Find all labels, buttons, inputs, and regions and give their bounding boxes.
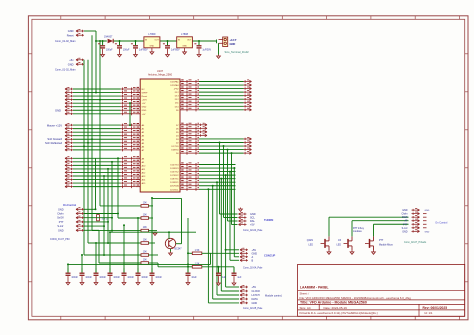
svg-text:D20/SDA: D20/SDA	[170, 185, 179, 188]
svg-text:D25/PA3: D25/PA3	[170, 84, 179, 87]
svg-text:S-mtr: S-mtr	[57, 225, 63, 228]
svg-text:BC547: BC547	[175, 249, 183, 251]
svg-text:GND: GND	[68, 62, 74, 66]
svg-text:SnF forward: SnF forward	[47, 137, 62, 141]
svg-text:10K: 10K	[143, 260, 148, 262]
svg-text:Scre_Terminal_01x02: Scre_Terminal_01x02	[225, 51, 250, 54]
svg-text:+12 P: +12 P	[230, 38, 237, 42]
svg-text:+5V: +5V	[142, 114, 146, 116]
svg-text:GND: GND	[252, 302, 258, 305]
svg-text:File: VFO ARDUINO MEGA2560 SM2: File: VFO ARDUINO MEGA2560 SM2001 - 2023…	[300, 296, 412, 300]
svg-text:LAAMMM - PA0BL: LAAMMM - PA0BL	[300, 286, 329, 290]
svg-text:L7808: L7808	[181, 33, 189, 36]
svg-text:+5V: +5V	[252, 286, 257, 289]
svg-text:GND: GND	[402, 230, 408, 233]
svg-text:GND: GND	[182, 46, 187, 48]
svg-text:GND: GND	[142, 107, 147, 109]
svg-text:10K: 10K	[143, 227, 148, 229]
svg-text:GND: GND	[230, 42, 236, 46]
svg-text:10uF: 10uF	[191, 277, 197, 279]
svg-text:PTT: PTT	[59, 221, 64, 224]
svg-text:L7809: L7809	[148, 33, 156, 36]
svg-text:Conn_02-07_PrAsds: Conn_02-07_PrAsds	[404, 241, 427, 244]
svg-text:Q4M1: Q4M1	[307, 240, 314, 242]
svg-text:GND: GND	[58, 208, 64, 211]
svg-text:10K: 10K	[143, 252, 148, 254]
svg-text:Mouse +12V: Mouse +12V	[47, 123, 62, 127]
svg-text:D14/TX3: D14/TX3	[170, 165, 179, 167]
svg-text:100nF: 100nF	[71, 277, 78, 279]
svg-text:Conn_02-05_Pale: Conn_02-05_Pale	[243, 307, 263, 310]
svg-text:100nF: 100nF	[113, 277, 120, 279]
svg-text:GND: GND	[150, 46, 155, 48]
svg-text:+5v: +5v	[69, 58, 74, 62]
svg-text:GND: GND	[68, 29, 74, 33]
svg-text:Module control,: Module control,	[265, 294, 282, 297]
svg-text:GND: GND	[425, 231, 430, 233]
svg-text:KiCad E.D.A. eeschema 6.0.11(: KiCad E.D.A. eeschema 6.0.11(-)/%/7ce8d6…	[300, 311, 378, 315]
svg-text:GND: GND	[55, 108, 61, 112]
svg-text:D25/PA1: D25/PA1	[170, 81, 179, 84]
svg-text:1.5K: 1.5K	[195, 250, 200, 252]
svg-text:1.5K: 1.5K	[195, 263, 200, 265]
svg-text:D16/TX2: D16/TX2	[170, 172, 179, 174]
svg-text:NC: NC	[142, 89, 146, 91]
svg-text:1N4007: 1N4007	[104, 35, 113, 38]
svg-text:Rev: 06/01/2025: Rev: 06/01/2025	[423, 306, 448, 310]
svg-text:1uF/50V: 1uF/50V	[171, 49, 180, 51]
svg-text:SnF Reflected: SnF Reflected	[45, 141, 63, 145]
svg-text:Date: 2024-05-19: Date: 2024-05-19	[324, 306, 348, 310]
svg-text:1uF: 1uF	[222, 277, 227, 279]
svg-text:Conn_01-02_Main: Conn_01-02_Main	[55, 69, 76, 72]
svg-text:1uF/50V: 1uF/50V	[202, 49, 211, 51]
svg-text:100nF: 100nF	[141, 277, 148, 279]
svg-text:100nF: 100nF	[99, 277, 106, 279]
svg-text:D19/RX1: D19/RX1	[170, 182, 179, 184]
svg-text:LATCH: LATCH	[252, 294, 260, 297]
svg-text:Conn_02-04_Pale: Conn_02-04_Pale	[243, 229, 263, 232]
svg-text:SnOff: SnOff	[57, 217, 64, 220]
svg-text:D15/RX3: D15/RX3	[170, 168, 179, 170]
svg-text:+5V: +5V	[250, 224, 255, 227]
svg-text:Sheet: /: Sheet: /	[300, 292, 310, 296]
svg-text:SWR: SWR	[402, 216, 408, 219]
svg-text:Reset: Reset	[142, 95, 148, 98]
svg-text:CONCUP: CONCUP	[264, 254, 276, 258]
svg-text:RTT InKey: RTT InKey	[353, 228, 365, 230]
svg-text:On Control: On Control	[63, 204, 76, 207]
svg-text:THORN: THORN	[264, 218, 273, 222]
svg-text:modules: modules	[353, 231, 363, 233]
svg-text:+PS2: +PS2	[173, 89, 179, 91]
svg-text:GND: GND	[142, 110, 147, 112]
svg-text:10K: 10K	[143, 215, 148, 217]
svg-text:100uF: 100uF	[123, 49, 130, 51]
svg-text:Reset: Reset	[67, 33, 74, 37]
svg-text:GND: GND	[425, 210, 430, 212]
svg-text:PTT: PTT	[379, 240, 384, 242]
svg-text:Title: VFD Arduino - Module: Title: VFD Arduino - Module MEGA2560	[300, 301, 367, 305]
svg-text:10K: 10K	[143, 203, 148, 205]
svg-text:D1/TX0: D1/TX0	[172, 146, 180, 148]
svg-text:D17/RX2: D17/RX2	[170, 175, 179, 177]
svg-text:U107: U107	[157, 69, 164, 73]
svg-text:D0/RX0: D0/RX0	[171, 150, 179, 152]
svg-text:CLOCK: CLOCK	[252, 290, 261, 293]
svg-text:100nF: 100nF	[155, 277, 162, 279]
svg-text:CON4_IO-07_P60: CON4_IO-07_P60	[50, 238, 70, 241]
svg-text:PTT: PTT	[403, 223, 408, 226]
svg-text:Size: A4: Size: A4	[300, 306, 311, 310]
svg-text:100uF: 100uF	[106, 49, 113, 51]
svg-text:Conn_02-04_Pale: Conn_02-04_Pale	[243, 266, 263, 269]
svg-text:DATA: DATA	[252, 298, 259, 301]
svg-text:+3V3: +3V3	[142, 100, 148, 102]
svg-text:Conn_01-02_Main: Conn_01-02_Main	[55, 40, 76, 43]
svg-text:Module Micro: Module Micro	[379, 244, 394, 247]
svg-text:+5V: +5V	[142, 103, 146, 105]
svg-text:D18/TX1: D18/TX1	[170, 179, 179, 181]
svg-text:Id: 1/1: Id: 1/1	[425, 311, 433, 315]
svg-text:Arduino_Mega_2560: Arduino_Mega_2560	[148, 73, 173, 77]
svg-text:10K: 10K	[143, 240, 148, 242]
svg-text:100nF: 100nF	[127, 277, 134, 279]
svg-text:1uF/50V: 1uF/50V	[139, 49, 148, 51]
svg-text:1uF: 1uF	[237, 277, 242, 279]
svg-text:LED: LED	[309, 245, 314, 247]
svg-text:GPEP: GPEP	[142, 93, 148, 95]
svg-text:On Control: On Control	[435, 221, 448, 224]
svg-text:100nF: 100nF	[85, 277, 92, 279]
svg-text:ClwIn: ClwIn	[57, 213, 64, 216]
svg-text:GND: GND	[58, 229, 64, 232]
svg-text:D21/SCL: D21/SCL	[170, 189, 179, 191]
svg-text:LED: LED	[337, 245, 342, 247]
